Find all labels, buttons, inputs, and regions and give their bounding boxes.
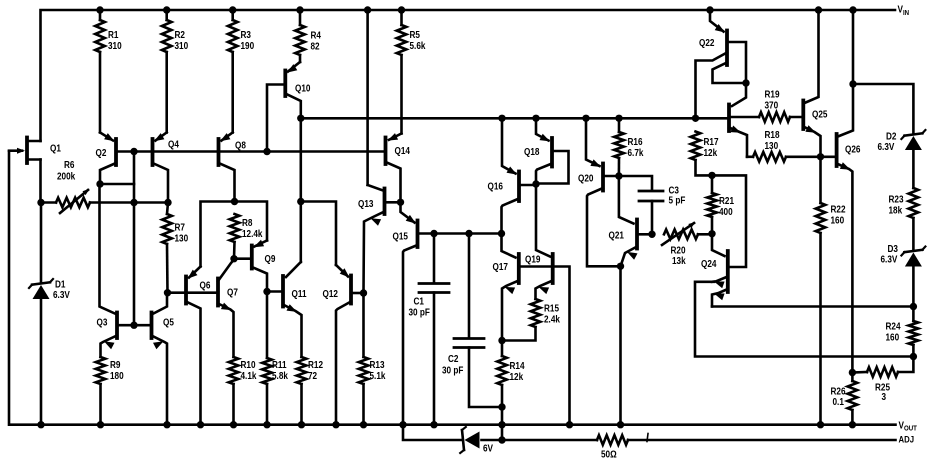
svg-text:R2: R2	[175, 29, 185, 40]
svg-text:Q2: Q2	[96, 147, 107, 158]
resistor R11	[262, 358, 289, 425]
junction R14 column at VOUT rail	[498, 421, 505, 428]
junction Q22 collector mid rail / R17	[692, 115, 699, 122]
junction top rail R3	[229, 6, 236, 13]
wire base column x134	[133, 152, 136, 326]
svg-text:12.4k: 12.4k	[242, 228, 263, 239]
resistor R50 50ohm	[597, 435, 896, 459]
junction Q5 emitter bottom rail	[163, 421, 170, 428]
junction Q17 emitter / R15 / R14 top	[498, 337, 505, 344]
junction R7 bottom / Q5 collector / Q6-Q7 base	[164, 289, 171, 296]
wire Q10 collector column down	[299, 118, 302, 262]
svg-text:6.3V: 6.3V	[878, 141, 896, 152]
transistor Q22	[696, 10, 747, 118]
svg-text:R7: R7	[175, 222, 185, 233]
resistor R20 variable	[662, 222, 712, 266]
resistor R13	[359, 293, 387, 425]
junction top rail R5	[398, 6, 405, 13]
resistor R5	[397, 10, 427, 134]
resistor R26	[831, 373, 858, 425]
transistor Q18	[524, 118, 569, 183]
junction Q3-Q5 base column	[130, 322, 137, 329]
junction D3 anode / Q24 emitter2 line / R24	[910, 303, 917, 310]
junction top rail Q25 collector	[815, 6, 822, 13]
svg-text:12k: 12k	[704, 147, 718, 158]
junction Q12 collector bottom rail	[332, 421, 339, 428]
svg-text:6.3V: 6.3V	[881, 254, 899, 265]
svg-text:R22: R22	[831, 204, 846, 215]
wire R25 link	[898, 357, 913, 373]
svg-text:Q11: Q11	[292, 288, 307, 299]
resistor R12	[297, 357, 323, 425]
junction top rail Q26 column	[849, 6, 856, 13]
junction C1 bottom rail	[430, 421, 437, 428]
svg-text:ADJ: ADJ	[899, 434, 915, 445]
resistor R16	[614, 118, 644, 176]
svg-text:Q15: Q15	[393, 231, 408, 242]
wire Q3-Q5 base line	[117, 324, 152, 327]
resistor R19	[729, 89, 803, 122]
resistor R15	[502, 299, 561, 341]
junction R25 / R26 / Q26 emitter	[849, 369, 856, 376]
svg-text:130: 130	[175, 233, 189, 244]
capacitor C1	[409, 234, 450, 425]
resistor R25	[852, 367, 898, 402]
svg-text:310: 310	[175, 40, 189, 51]
svg-text:5.6k: 5.6k	[410, 40, 427, 51]
svg-text:130: 130	[765, 140, 779, 151]
transistor Q4	[153, 133, 180, 203]
junction mid rail Q20 emitter	[582, 115, 589, 122]
svg-text:2.4k: 2.4k	[544, 314, 561, 325]
wire Q2 collector to base-column	[100, 183, 134, 186]
resistor R9	[96, 357, 124, 425]
svg-text:Q16: Q16	[488, 181, 503, 192]
junction Q15 base line Q16 collector	[498, 230, 505, 237]
svg-text:12k: 12k	[510, 371, 524, 382]
svg-text:400: 400	[719, 206, 733, 217]
svg-text:Q10: Q10	[295, 83, 310, 94]
svg-text:C1: C1	[414, 296, 424, 307]
junction Q18 collector+base / Q16 base / Q19 collector	[532, 180, 539, 187]
transistor Q24	[701, 175, 746, 306]
junction R16 / Q20 base / Q21 collector / C3	[615, 172, 622, 179]
junction mid rail Q18 emitter	[532, 115, 539, 122]
junction mid rail R16	[615, 115, 622, 122]
svg-text:3: 3	[882, 391, 887, 402]
junction top rail R2	[163, 6, 170, 13]
zener D4 6V	[460, 427, 494, 454]
junction Q21 emitter bottom rail	[617, 421, 624, 428]
junction R11 bottom rail	[263, 421, 270, 428]
junction base line to Q10 base	[263, 148, 270, 155]
svg-text:Q8: Q8	[235, 140, 246, 151]
svg-text:R1: R1	[108, 29, 118, 40]
junction R13 bottom rail	[360, 421, 367, 428]
resistor R17	[691, 132, 719, 176]
wire Q6-Q7 base line	[168, 291, 219, 294]
wire D2 feed	[853, 84, 913, 133]
capacitor C3	[619, 176, 686, 234]
junction R6 line base column	[130, 199, 137, 206]
terminal ADJ	[899, 434, 915, 445]
transistor Q16	[488, 118, 537, 233]
junction D1 anode bottom rail	[37, 421, 44, 428]
transistor Q9	[234, 240, 275, 292]
transistor Q10	[267, 62, 310, 152]
wire Q21 emitter column	[619, 266, 622, 424]
junction top rail Q13 collector	[364, 6, 371, 13]
svg-text:R10: R10	[241, 359, 256, 370]
svg-text:R24: R24	[886, 321, 902, 332]
resistor R8	[230, 214, 264, 259]
junction R20 right / R21 bottom / Q24 collector	[708, 230, 715, 237]
junction Q6 collector bottom rail	[197, 421, 204, 428]
junction R6 right / Q4 collector / R7	[164, 199, 171, 206]
svg-text:4.1k: 4.1k	[241, 370, 258, 381]
wire Q26 collector to top rail	[852, 10, 855, 84]
svg-text:R17: R17	[704, 136, 719, 147]
svg-text:160: 160	[886, 332, 900, 343]
svg-text:Q14: Q14	[395, 145, 411, 156]
transistor Q14	[386, 133, 411, 202]
wire common base line Q2-Q4-Q8-Q10-Q14	[116, 150, 386, 153]
wire mid rail y118	[301, 117, 728, 120]
junction R17 / R21 / Q24 base link	[708, 172, 715, 179]
wire staple Q8-collector node	[201, 202, 268, 267]
junction Q10 collector / mid rail	[297, 115, 304, 122]
junction base line to column x134	[130, 148, 137, 155]
terminal VIN	[898, 4, 910, 17]
svg-text:30 pF: 30 pF	[409, 307, 431, 318]
resistor R24	[886, 307, 919, 357]
transistor Q20	[578, 118, 621, 266]
junction ADJ line R14 column	[498, 436, 505, 443]
transistor Q2	[96, 133, 117, 185]
resistor R3	[228, 10, 254, 133]
svg-text:D3: D3	[888, 243, 898, 254]
svg-text:C2: C2	[448, 353, 458, 364]
transistor Q1	[9, 138, 61, 203]
wire tick mark on ADJ line	[647, 434, 648, 442]
zener D3	[881, 243, 926, 306]
svg-text:5.1k: 5.1k	[370, 370, 387, 381]
svg-text:R23: R23	[889, 194, 904, 205]
junction Q17-Q19 base bottom rail	[566, 421, 573, 428]
svg-text:R15: R15	[544, 303, 559, 314]
transistor Q25	[803, 10, 827, 157]
zener D1	[29, 203, 71, 425]
wire top VIN rail	[41, 10, 896, 141]
svg-text:Q3: Q3	[97, 317, 108, 328]
transistor Q22 output NPN	[729, 83, 747, 157]
transistor Q7	[218, 260, 238, 358]
transistor Q17	[493, 234, 519, 341]
svg-text:Q25: Q25	[812, 109, 827, 120]
junction staple R8 top	[231, 198, 238, 205]
wire ADJ line	[403, 425, 461, 440]
transistor Q3	[97, 184, 118, 357]
svg-text:Q4: Q4	[168, 139, 180, 150]
junction mid rail Q16 emitter	[498, 115, 505, 122]
svg-text:0.1: 0.1	[833, 396, 844, 407]
junction mid column y201	[297, 198, 304, 205]
svg-text:Q5: Q5	[163, 317, 174, 328]
svg-text:R9: R9	[110, 359, 120, 370]
resistor R21	[707, 175, 734, 233]
transistor Q15	[393, 202, 502, 424]
svg-text:Q17: Q17	[493, 261, 508, 272]
svg-text:R12: R12	[308, 359, 323, 370]
svg-text:370: 370	[765, 100, 779, 111]
junction Q15 base line C2	[465, 230, 472, 237]
junction Q2 collector node	[96, 180, 103, 187]
svg-text:Q20: Q20	[578, 173, 593, 184]
transistor Q26	[821, 84, 861, 373]
svg-text:30 pF: 30 pF	[442, 365, 464, 376]
resistor R4	[295, 10, 322, 62]
junction R24 bottom / Q24 emitter1 line / R25	[910, 353, 917, 360]
svg-text:R4: R4	[311, 30, 322, 41]
junction C3 bottom / Q21 base line	[648, 231, 655, 238]
svg-text:R26: R26	[831, 386, 846, 397]
wire Q9 collector column to R11	[266, 292, 269, 359]
resistor R10	[229, 357, 258, 425]
junction top rail R1	[96, 6, 103, 13]
resistor R6 variable	[41, 159, 168, 213]
wire Q17-Q19 base line	[519, 267, 570, 425]
transistor Q19	[525, 254, 553, 299]
transistor Q21	[609, 176, 653, 266]
svg-text:R18: R18	[765, 129, 780, 140]
svg-text:5 pF: 5 pF	[669, 195, 686, 206]
svg-text:18k: 18k	[889, 205, 903, 216]
svg-text:190: 190	[241, 40, 255, 51]
svg-text:Q1: Q1	[50, 143, 61, 154]
svg-text:200k: 200k	[57, 171, 76, 182]
svg-text:6V: 6V	[483, 443, 494, 454]
junction Q14 collector / Q13 base / Q15 emitter	[397, 199, 404, 206]
transistor Q5	[152, 293, 174, 425]
zener D2	[878, 130, 926, 188]
svg-text:R21: R21	[719, 195, 734, 206]
svg-text:Q19: Q19	[525, 254, 540, 265]
svg-text:R16: R16	[628, 136, 643, 147]
resistor R23	[889, 188, 919, 249]
junction R26 bottom rail	[849, 421, 856, 428]
wire Q24 emitter1 wrap to R24 node	[695, 282, 913, 357]
junction Q21 emitter / Q20 collector	[617, 263, 624, 270]
wire Q12 emitter feed	[301, 202, 336, 266]
transistor Q13	[358, 185, 401, 293]
svg-text:Q24: Q24	[701, 258, 717, 269]
svg-text:D2: D2	[886, 131, 896, 142]
svg-text:R3: R3	[241, 29, 251, 40]
svg-text:R5: R5	[410, 29, 420, 40]
svg-text:R14: R14	[510, 360, 526, 371]
junction R22 bottom rail	[817, 421, 824, 428]
svg-text:R11: R11	[272, 359, 287, 370]
svg-text:82: 82	[311, 41, 320, 52]
svg-text:D1: D1	[55, 279, 65, 290]
svg-text:5.8k: 5.8k	[272, 370, 289, 381]
transistor Q11	[267, 262, 307, 357]
resistor R18	[747, 129, 821, 161]
junction R8 bottom / Q9 base / Q7 collector	[230, 255, 237, 262]
svg-text:Q22: Q22	[699, 37, 714, 48]
wire Q18 node down to Q19 collector	[536, 184, 550, 257]
transistor Q12	[323, 265, 364, 425]
junction R14 C2 bottom	[498, 403, 505, 410]
junction Q15 base line C1	[430, 230, 437, 237]
svg-text:6.3V: 6.3V	[53, 289, 71, 300]
svg-text:160: 160	[831, 215, 845, 226]
junction Q12 base / Q13 emitter column	[360, 289, 367, 296]
resistor R22	[816, 157, 846, 425]
svg-text:310: 310	[108, 40, 122, 51]
svg-text:Q26: Q26	[845, 144, 860, 155]
junction Q25 emitter / R18 / Q26 base / R22	[817, 153, 824, 160]
resistor R14	[497, 341, 525, 441]
terminal VOUT	[899, 420, 918, 433]
junction top rail Q22 emitter	[706, 6, 713, 13]
svg-text:Q12: Q12	[323, 288, 338, 299]
svg-text:6.7k: 6.7k	[628, 147, 645, 158]
wire bottom VOUT rail with left riser to Q1 gate	[9, 151, 896, 425]
wire ADJ line mid	[482, 439, 598, 442]
svg-text:Q6: Q6	[200, 280, 211, 291]
resistor R1	[95, 10, 121, 133]
junction R12 bottom rail	[298, 421, 305, 428]
junction R10 bottom rail	[230, 421, 237, 428]
junction Q9 collector / Q11 base	[263, 288, 270, 295]
junction Q15 collector bottom rail / ADJ branch	[399, 421, 406, 428]
junction Q26 collector / D2 branch	[849, 80, 856, 87]
svg-text:R8: R8	[242, 217, 252, 228]
junction R9 bottom rail	[97, 421, 104, 428]
svg-text:R6: R6	[64, 159, 74, 170]
junction top rail R4	[296, 6, 303, 13]
svg-text:Q18: Q18	[524, 146, 539, 157]
resistor R7	[162, 203, 188, 293]
capacitor C2	[442, 234, 502, 408]
svg-text:72: 72	[308, 370, 317, 381]
junction R6 left / Q1 source / D1	[37, 199, 44, 206]
resistor R2	[162, 10, 188, 133]
svg-text:R13: R13	[370, 359, 385, 370]
svg-text:R19: R19	[765, 89, 780, 100]
junction Q22 base node	[742, 79, 749, 86]
svg-text:R20: R20	[671, 245, 686, 256]
svg-text:Q9: Q9	[265, 253, 276, 264]
transistor Q8	[219, 133, 246, 202]
transistor Q6	[186, 267, 210, 425]
wire Q13 collector from top rail	[366, 10, 369, 185]
svg-text:Q7: Q7	[227, 287, 238, 298]
wire Q24 emitter2 line to D3 node	[712, 305, 913, 308]
svg-text:Q13: Q13	[358, 198, 373, 209]
svg-text:50Ω: 50Ω	[601, 449, 617, 460]
svg-text:Q21: Q21	[609, 230, 624, 241]
svg-text:13k: 13k	[672, 255, 686, 266]
svg-text:180: 180	[110, 370, 124, 381]
